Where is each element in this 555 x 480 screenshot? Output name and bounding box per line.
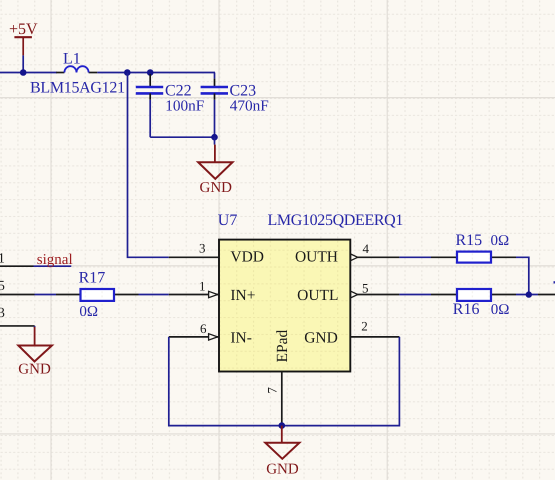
svg-text:EPad: EPad — [274, 330, 291, 363]
svg-text:5: 5 — [362, 281, 369, 296]
ground GND (left) — [18, 327, 52, 378]
svg-text:5: 5 — [0, 279, 5, 294]
wire VDD drop — [128, 73, 169, 258]
svg-text:GND: GND — [200, 180, 233, 196]
resistor R16 — [431, 289, 516, 318]
svg-text:U7: U7 — [218, 212, 238, 229]
inductor L1 — [30, 51, 125, 97]
svg-text:OUTL: OUTL — [297, 287, 338, 304]
wire R17 to pin IN+ — [139, 294, 169, 296]
wire gnd stub — [214, 137, 216, 144]
wire R16 to junction — [516, 294, 538, 296]
node junction C22 tap — [147, 69, 154, 76]
svg-text:470nF: 470nF — [230, 97, 269, 114]
capacitor C23 — [201, 73, 269, 138]
svg-text:+5V: +5V — [9, 21, 38, 38]
svg-text:R16: R16 — [453, 301, 480, 318]
wire IN- loop — [169, 337, 400, 426]
wire to R17 — [35, 294, 57, 296]
svg-text:0Ω: 0Ω — [491, 302, 510, 318]
svg-text:7: 7 — [265, 387, 280, 394]
svg-text:3: 3 — [199, 241, 206, 256]
svg-text:BLM15AG121: BLM15AG121 — [30, 80, 125, 97]
svg-text:IN-: IN- — [230, 329, 252, 346]
pin stub right edge — [538, 294, 555, 296]
svg-text:signal: signal — [37, 252, 73, 268]
svg-text:4: 4 — [363, 241, 370, 256]
svg-text:3: 3 — [0, 306, 5, 321]
pin 1 IN+ — [169, 279, 256, 305]
svg-text:IN+: IN+ — [230, 287, 255, 304]
pin 7 EPad — [265, 330, 292, 426]
op-amp U7 body — [219, 240, 350, 372]
pin 6 IN- — [169, 321, 252, 346]
wire pin4 to R15 — [399, 256, 431, 258]
svg-text:LMG1025QDEERQ1: LMG1025QDEERQ1 — [268, 212, 404, 229]
svg-text:GND: GND — [304, 329, 338, 346]
node junction VDD tap — [124, 69, 131, 76]
wire cap bottoms — [150, 136, 214, 138]
svg-text:6: 6 — [200, 321, 207, 336]
node junction epad — [279, 422, 286, 429]
pin 4 OUTH — [295, 241, 399, 265]
svg-text:1: 1 — [0, 252, 5, 267]
resistor R17 — [56, 269, 139, 320]
node junction cap gnd — [211, 134, 218, 141]
wire L1 to caps — [97, 72, 215, 74]
pin 3 VDD — [169, 241, 264, 266]
wire main rail left — [0, 72, 57, 74]
ground GND (bottom) — [265, 426, 299, 478]
wire +5V stem — [22, 55, 24, 72]
svg-text:VDD: VDD — [230, 248, 264, 265]
ground GND (caps) — [198, 145, 232, 196]
wire R15 to corner — [516, 257, 529, 294]
wire pin5 to R16 — [399, 294, 431, 296]
net fragment right edge — [554, 281, 555, 283]
svg-text:1: 1 — [199, 279, 206, 294]
svg-text:2: 2 — [361, 319, 368, 334]
svg-text:100nF: 100nF — [165, 97, 204, 114]
svg-text:R15: R15 — [456, 232, 483, 249]
wire gnd stub left — [34, 326, 36, 328]
svg-text:R17: R17 — [79, 269, 106, 286]
node junction right — [526, 291, 532, 297]
resistor R15 — [431, 232, 516, 262]
wire net signal — [34, 265, 72, 267]
svg-text:0Ω: 0Ω — [491, 233, 510, 249]
pin 2 GND — [304, 319, 399, 347]
svg-text:L1: L1 — [63, 51, 81, 68]
svg-text:0Ω: 0Ω — [79, 304, 98, 320]
svg-text:GND: GND — [18, 362, 51, 378]
svg-text:GND: GND — [266, 462, 299, 478]
power port +5V — [9, 21, 38, 55]
capacitor C22 — [136, 74, 205, 137]
pin 5 OUTL — [297, 281, 399, 305]
svg-text:OUTH: OUTH — [295, 248, 338, 265]
node junction at +5V — [20, 69, 27, 76]
